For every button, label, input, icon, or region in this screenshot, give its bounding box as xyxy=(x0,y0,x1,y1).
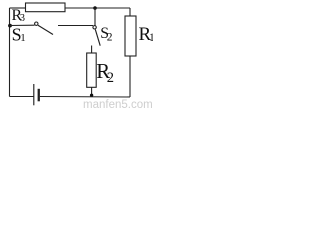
node junction dot on left wire (S1 branch) xyxy=(8,24,12,28)
wire: top rail right segment (R3 box to right corner) xyxy=(65,7,130,9)
svg-text:2: 2 xyxy=(107,70,114,86)
svg-text:2: 2 xyxy=(107,31,113,43)
switch S1 blade (open, down-right) xyxy=(38,25,53,34)
wire: right corner down to R1 box xyxy=(129,8,131,16)
svg-text:3: 3 xyxy=(20,13,25,24)
wire: bottom rail left segment (to battery) xyxy=(10,96,34,98)
battery: long plate xyxy=(33,84,35,105)
svg-text:manfen5.com: manfen5.com xyxy=(83,99,153,108)
switch S1 contact circle xyxy=(35,22,38,25)
wire: R1 box down to bottom rail xyxy=(129,56,131,97)
battery: short thick plate xyxy=(38,89,40,102)
wire: S1 branch left segment xyxy=(10,24,35,26)
wire: stub from R2 box to bottom rail xyxy=(91,87,93,96)
svg-text:1: 1 xyxy=(20,32,26,44)
wire: bottom rail right segment (battery to right corner) xyxy=(40,96,130,99)
wire: stub from S2 to R2 box xyxy=(91,46,93,54)
resistor R1 (vertical box, right branch) xyxy=(125,16,136,56)
svg-text:1: 1 xyxy=(149,32,153,44)
resistor R3 (box in top rail) xyxy=(26,3,66,12)
node junction dot on top rail xyxy=(93,6,97,10)
wire: top rail left segment (left wire top to R3 box) xyxy=(10,7,26,9)
node junction dot on bottom rail xyxy=(90,94,93,97)
resistor R2 (vertical box, middle branch) xyxy=(87,53,97,87)
switch S2 contact circle xyxy=(93,26,96,29)
switch S2 blade (open, hanging down-right) xyxy=(95,29,100,45)
wire: left vertical wire xyxy=(9,8,11,97)
wire: S1 branch right segment xyxy=(58,25,93,27)
wire: middle branch drop from top rail to S2 xyxy=(94,8,96,26)
